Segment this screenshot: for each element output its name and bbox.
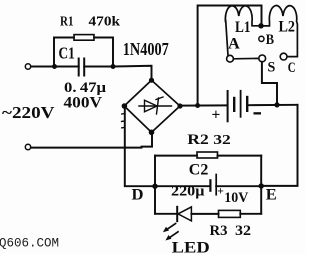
svg-text:C2: C2: [189, 162, 209, 179]
wire: R2 branch left: [155, 155, 197, 157]
node: R1/C1 left junction: [52, 64, 57, 69]
wire: DC minus hatch marks: [122, 112, 125, 115]
node: L1-L2 junction: [258, 23, 263, 28]
node: bridge bottom vertex: [149, 130, 155, 136]
wire: up to top rail: [198, 6, 262, 106]
node: bridge right vertex: [177, 103, 182, 108]
wire: [248, 104, 297, 106]
terminal: AC input upper: [25, 64, 30, 69]
switch S wiper A to S: [234, 57, 259, 59]
svg-text:L2: L2: [279, 19, 296, 36]
wire: L1 left lead to A: [226, 21, 228, 56]
node: battery right junction: [274, 102, 279, 107]
LED emission arrows: [163, 224, 178, 241]
inductor L2: [264, 6, 298, 57]
terminal A: [227, 55, 234, 62]
svg-text:+: +: [217, 185, 224, 197]
terminal: AC input lower: [25, 144, 30, 149]
wire: box right vertical: [260, 156, 262, 214]
wire: R2 branch right: [218, 155, 262, 157]
svg-text:1N4007: 1N4007: [123, 39, 169, 59]
terminal S: [259, 55, 266, 62]
svg-text:32: 32: [213, 133, 231, 148]
svg-text:10V: 10V: [224, 190, 248, 206]
svg-text:E: E: [266, 187, 277, 204]
wire: box left vertical: [154, 156, 156, 214]
wire: LED branch left: [155, 213, 177, 215]
svg-text:C1: C1: [59, 44, 75, 63]
wire: S down to battery right: [262, 62, 277, 105]
terminal C: [280, 53, 287, 60]
svg-text:A: A: [228, 35, 241, 52]
wire: DC plus rail to battery: [180, 104, 227, 106]
label battery minus: [254, 112, 262, 114]
svg-text:S: S: [268, 60, 276, 76]
terminal B: [259, 36, 264, 41]
svg-text:470k: 470k: [89, 14, 121, 29]
wire: [57, 66, 79, 68]
resistor R3: [219, 210, 241, 217]
svg-text:Q606.COM: Q606.COM: [0, 236, 59, 250]
capacitor C1: [78, 59, 80, 76]
wire: [191, 213, 218, 215]
resistor R2: [197, 152, 218, 158]
battery B1: [227, 91, 229, 121]
svg-text:R1: R1: [60, 14, 74, 29]
wire: [216, 185, 261, 187]
bridge inner diode: [139, 97, 172, 114]
wire: lower AC to bridge bottom: [31, 132, 152, 147]
svg-text:220μ: 220μ: [171, 183, 205, 199]
svg-text:32: 32: [235, 223, 251, 239]
svg-text:~220V: ~220V: [2, 103, 55, 122]
capacitor C2: [209, 180, 211, 190]
node: battery left tap: [195, 103, 200, 108]
node E: [259, 183, 264, 188]
wire: right rail down to E: [261, 105, 297, 186]
svg-text:L1: L1: [235, 19, 251, 36]
svg-text:D: D: [132, 186, 144, 203]
svg-text:R3: R3: [210, 223, 228, 239]
bridge rectifier: [124, 80, 180, 132]
svg-text:+: +: [212, 106, 221, 123]
wire: [94, 38, 113, 67]
wire: [31, 66, 54, 68]
node: R1/C1 right junction: [111, 64, 116, 69]
resistor R1: [74, 35, 94, 41]
node: bridge left vertex: [122, 103, 128, 109]
wire: [84, 66, 113, 68]
LED D2: [176, 207, 178, 221]
node D: [152, 184, 157, 189]
wire: [113, 66, 152, 80]
svg-text:LED: LED: [172, 240, 210, 254]
wire: [54, 38, 74, 67]
node: bridge top vertex: [149, 78, 154, 83]
inductor L1: [225, 6, 258, 26]
wire: [240, 213, 261, 215]
svg-text:C: C: [288, 60, 296, 76]
svg-text:R2: R2: [187, 132, 209, 148]
svg-text:B: B: [266, 32, 275, 48]
wire: [155, 185, 210, 187]
wire: DC minus down from left vertex: [125, 106, 155, 186]
svg-text:400V: 400V: [64, 94, 103, 111]
